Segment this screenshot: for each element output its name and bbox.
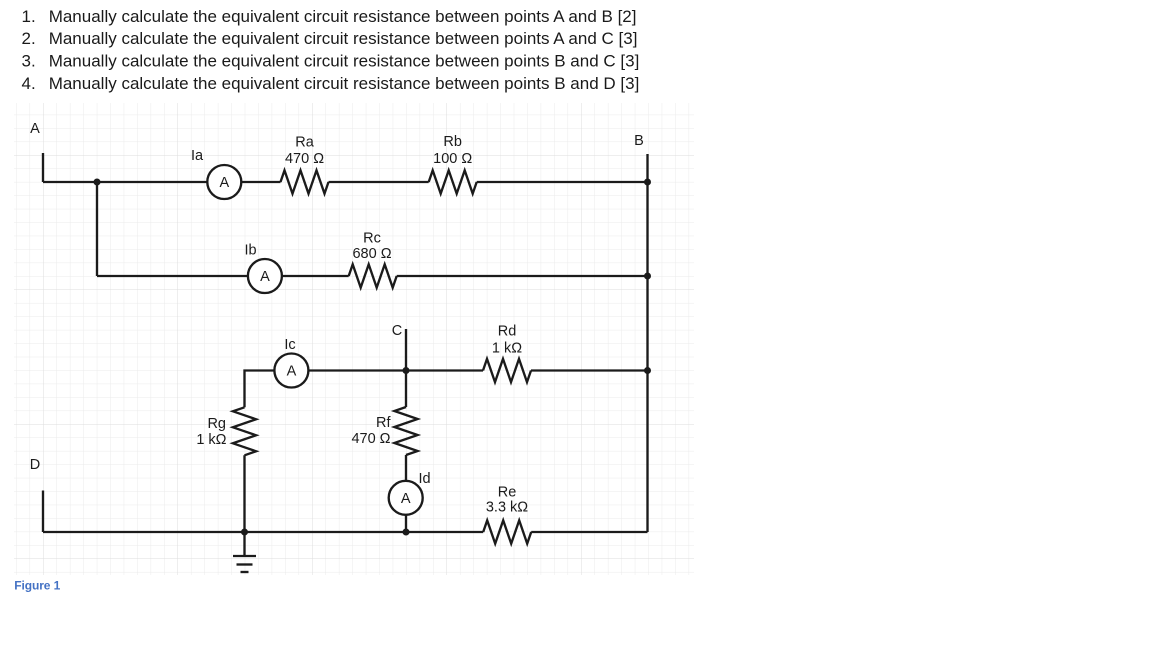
junction dot top row at node B <box>644 179 651 186</box>
svg-text:3.: 3. <box>22 52 36 71</box>
svg-text:A: A <box>30 121 40 137</box>
wire: Ib to Rc <box>282 275 349 277</box>
svg-text:1 kΩ: 1 kΩ <box>492 340 522 356</box>
wire: row 3 left corner above Rg <box>245 371 275 408</box>
wire: Ic to node C <box>308 369 406 371</box>
svg-text:Manually calculate the equival: Manually calculate the equivalent circui… <box>49 29 638 48</box>
label Rc 680 Ω <box>352 231 391 262</box>
svg-text:B: B <box>634 133 644 149</box>
junction dot row 3 at B line <box>644 367 651 374</box>
resistor Rf <box>394 407 417 455</box>
junction dot bottom row at Rg/ground <box>241 529 248 536</box>
svg-text:100 Ω: 100 Ω <box>433 151 472 167</box>
svg-text:1.: 1. <box>22 7 36 26</box>
resistor Rg <box>233 407 256 455</box>
resistor Re <box>483 520 531 543</box>
node D stub <box>42 491 44 533</box>
ammeter Id <box>389 481 423 515</box>
label Rg 1 kΩ <box>196 416 226 448</box>
svg-text:Manually calculate the equival: Manually calculate the equivalent circui… <box>49 7 637 26</box>
label Re 3.3 kΩ <box>486 484 528 515</box>
wire: node C to Rf <box>405 371 407 408</box>
node C stub <box>405 329 407 371</box>
svg-text:470 Ω: 470 Ω <box>351 431 390 447</box>
svg-text:Rd: Rd <box>498 324 517 340</box>
svg-text:Re: Re <box>498 484 517 500</box>
svg-text:470 Ω: 470 Ω <box>285 151 324 167</box>
svg-text:D: D <box>30 457 40 473</box>
label Rd 1 kΩ <box>492 324 522 357</box>
wire: bottom row from D to Re <box>43 531 483 533</box>
svg-text:3.3 kΩ: 3.3 kΩ <box>486 499 528 515</box>
ammeter Ia <box>207 165 241 199</box>
ammeter Ic <box>274 354 308 388</box>
svg-text:Ic: Ic <box>284 337 295 353</box>
svg-text:1 kΩ: 1 kΩ <box>196 432 226 448</box>
wire: Ra to Rb <box>329 181 429 183</box>
wire: Rd to B line <box>531 369 648 371</box>
wire: node A stub <box>42 153 44 182</box>
svg-text:Ib: Ib <box>244 243 256 259</box>
resistor Rd <box>483 359 531 382</box>
junction dot row 2 at B line <box>644 273 651 280</box>
ground <box>233 532 256 572</box>
resistor Rc <box>349 264 397 287</box>
resistor Rb <box>429 170 477 193</box>
instruction list <box>22 7 640 93</box>
wire: Rf to ammeter Id <box>405 455 407 481</box>
svg-text:Manually calculate the equival: Manually calculate the equivalent circui… <box>49 52 640 71</box>
wire: Ia to Ra <box>241 181 280 183</box>
svg-text:4.: 4. <box>22 74 36 93</box>
wire: row 2 to ammeter Ib <box>97 275 248 277</box>
svg-text:Ra: Ra <box>295 135 314 151</box>
wire: branch down from top row to row 2 <box>96 182 98 276</box>
svg-text:Rf: Rf <box>376 415 391 431</box>
wire: Rb to node B <box>477 181 648 183</box>
svg-text:Manually calculate the equival: Manually calculate the equivalent circui… <box>49 74 640 93</box>
svg-text:2.: 2. <box>22 29 36 48</box>
label Ra 470 Ω <box>285 135 324 167</box>
wire: Re to B line corner <box>531 531 647 533</box>
svg-text:A: A <box>260 269 270 285</box>
ammeter Ib <box>248 259 282 293</box>
svg-text:C: C <box>392 323 402 339</box>
label Rb 100 Ω <box>433 134 472 167</box>
wire: node B vertical line <box>646 154 648 532</box>
svg-text:A: A <box>287 364 297 380</box>
label Rf 470 Ω <box>351 415 391 447</box>
svg-text:Figure 1: Figure 1 <box>14 579 60 593</box>
svg-text:680 Ω: 680 Ω <box>352 246 391 262</box>
wire: node C to Rd <box>406 369 483 371</box>
svg-text:Id: Id <box>418 471 430 487</box>
svg-text:Rg: Rg <box>207 416 226 432</box>
wire: top row from A corner to ammeter Ia <box>43 181 207 183</box>
svg-text:Ia: Ia <box>191 148 204 164</box>
wire: Rg to bottom row <box>243 455 245 532</box>
junction dot node C on row 3 <box>403 367 410 374</box>
svg-text:A: A <box>401 491 411 507</box>
junction dot bottom row below Id <box>403 529 410 536</box>
wire: Id to bottom row <box>405 515 407 532</box>
wire: Rc to B line <box>397 275 648 277</box>
svg-text:A: A <box>219 175 229 191</box>
svg-text:Rc: Rc <box>363 231 381 247</box>
junction dot at branch on top row <box>94 179 101 186</box>
svg-text:Rb: Rb <box>443 134 462 150</box>
resistor Ra <box>281 170 329 193</box>
